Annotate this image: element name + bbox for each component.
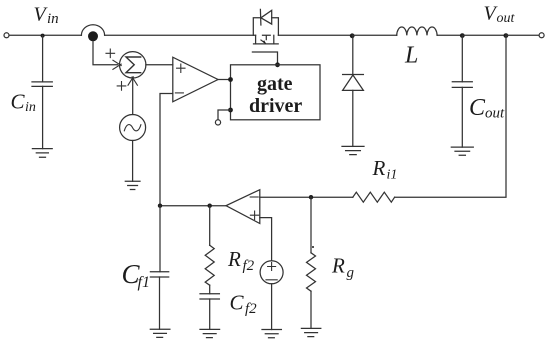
node error amp output Rf2 bbox=[208, 204, 212, 208]
wire Rg upper bbox=[310, 197, 312, 253]
inductor L bbox=[397, 27, 437, 35]
ground vs bbox=[262, 330, 281, 338]
svg-text:C: C bbox=[230, 291, 245, 315]
source vs bbox=[260, 261, 283, 284]
node Rg tap bbox=[309, 195, 313, 199]
terminal enable bbox=[215, 120, 220, 125]
wire top rail diode to inductor bbox=[352, 34, 397, 36]
wire top rail to switch bbox=[105, 34, 256, 36]
node gate driver lower pin bbox=[228, 108, 233, 113]
wire top rail switch to diode bbox=[278, 34, 352, 36]
svg-text:i1: i1 bbox=[387, 168, 398, 183]
svg-text:driver: driver bbox=[249, 95, 302, 117]
wire gate driver enable bbox=[218, 110, 231, 120]
summing junction bbox=[120, 52, 146, 78]
node Vout feedback tap bbox=[504, 33, 509, 38]
ground diode bbox=[342, 146, 364, 154]
svg-text:R: R bbox=[372, 156, 386, 180]
MOSFET Q1 body arrow bbox=[261, 40, 266, 43]
terminal Vout bbox=[539, 33, 544, 38]
capacitor Cout plates bbox=[452, 82, 472, 88]
op-amp error amplifier bbox=[226, 190, 260, 224]
svg-text:gate: gate bbox=[257, 73, 293, 95]
MOSFET Q1 drain stub bbox=[273, 35, 275, 44]
wire Cout upper bbox=[461, 36, 463, 82]
MOSFET Q1 gate bar and wire bbox=[252, 52, 277, 65]
body diode triangle bbox=[261, 10, 272, 24]
diode D1 triangle bbox=[343, 75, 364, 90]
svg-text:R: R bbox=[227, 247, 241, 271]
node Cin tap bbox=[41, 34, 45, 38]
wire comparator output bbox=[218, 79, 231, 81]
svg-text:f1: f1 bbox=[138, 274, 150, 291]
ground Cout bbox=[451, 147, 473, 155]
MOSFET Q1 body tab bbox=[263, 35, 271, 39]
current sensor dot bbox=[88, 31, 98, 41]
wire Rf2 to Cf2 bbox=[209, 285, 211, 294]
svg-text:R: R bbox=[331, 254, 345, 278]
label plus summer left bbox=[106, 49, 115, 58]
node gate pin bbox=[275, 62, 280, 67]
wire Cf1 upper bbox=[159, 206, 161, 272]
terminal Vin input bbox=[4, 33, 9, 38]
capacitor Cf2 plates bbox=[200, 294, 219, 299]
capacitor Cf1 plates bbox=[150, 272, 168, 277]
body diode cathode bar bbox=[259, 9, 262, 25]
wire error amp plus input bbox=[260, 218, 272, 261]
wire comparator minus feedback bbox=[160, 94, 173, 206]
wire summer to comparator bbox=[146, 64, 173, 66]
wire sine to summer bbox=[132, 78, 134, 115]
wire top rail inductor to Cout bbox=[437, 34, 462, 36]
svg-text:f2: f2 bbox=[245, 301, 257, 317]
svg-text:out: out bbox=[497, 11, 516, 26]
wire diode branch upper bbox=[352, 35, 354, 74]
resistor Rg bbox=[307, 253, 316, 291]
wire Cf2 lower bbox=[209, 299, 211, 329]
ground Cf2 bbox=[200, 329, 220, 337]
svg-text:out: out bbox=[485, 106, 505, 122]
wire sense to summer bbox=[93, 42, 118, 65]
ground Cin bbox=[32, 149, 52, 158]
MOSFET Q1 body diode branch bbox=[253, 18, 278, 36]
svg-text:f2: f2 bbox=[243, 258, 255, 274]
wire error amp minus input bbox=[260, 196, 353, 198]
arrowhead into summer left bbox=[113, 60, 121, 69]
resistor Rf2 bbox=[205, 245, 214, 285]
resistor Ri1 bbox=[353, 192, 395, 202]
node stray dot Rg bbox=[312, 246, 314, 248]
wire Cf1 lower bbox=[159, 277, 161, 329]
wire Rf2 upper bbox=[209, 206, 211, 246]
wire vs lower bbox=[271, 284, 273, 330]
gate driver box bbox=[231, 65, 321, 120]
svg-text:g: g bbox=[347, 265, 355, 281]
sine source bbox=[120, 115, 146, 141]
capacitor Cin plates bbox=[32, 82, 52, 87]
capacitor Cin wire lower bbox=[42, 86, 44, 148]
ground sine bbox=[125, 181, 140, 189]
diode D1 cathode bar bbox=[343, 74, 364, 76]
svg-text:L: L bbox=[404, 43, 418, 69]
current sensor hop arc bbox=[81, 25, 104, 36]
node error amp output Cf1 bbox=[158, 204, 162, 208]
node gate driver input pin bbox=[228, 77, 233, 82]
node diode tap bbox=[350, 33, 355, 38]
wire sine to ground bbox=[132, 141, 134, 182]
label plus summer bottom bbox=[117, 82, 126, 91]
wire Cout lower bbox=[461, 87, 463, 147]
wire Ri1 to feedback corner bbox=[395, 35, 506, 197]
wire Rg lower bbox=[310, 291, 312, 328]
wire top rail left bbox=[9, 34, 81, 36]
wire diode branch lower bbox=[352, 90, 354, 146]
wire top rail to Vout terminal bbox=[506, 34, 539, 36]
capacitor Cin wire upper bbox=[42, 36, 44, 82]
op-amp comparator bbox=[173, 57, 218, 102]
arrowhead into summer bottom bbox=[128, 77, 137, 85]
wire error amp output bbox=[160, 205, 226, 207]
ground Cf1 bbox=[150, 329, 170, 337]
svg-text:in: in bbox=[47, 11, 59, 27]
ground Rg bbox=[301, 328, 320, 336]
MOSFET Q1 channel bar bbox=[254, 43, 279, 45]
svg-text:C: C bbox=[11, 90, 26, 114]
svg-text:C: C bbox=[469, 95, 486, 121]
MOSFET Q1 source stub bbox=[255, 35, 257, 44]
wire top rail Cout to Vout bbox=[462, 34, 506, 36]
node Cout tap bbox=[460, 33, 465, 38]
svg-text:in: in bbox=[25, 100, 36, 115]
